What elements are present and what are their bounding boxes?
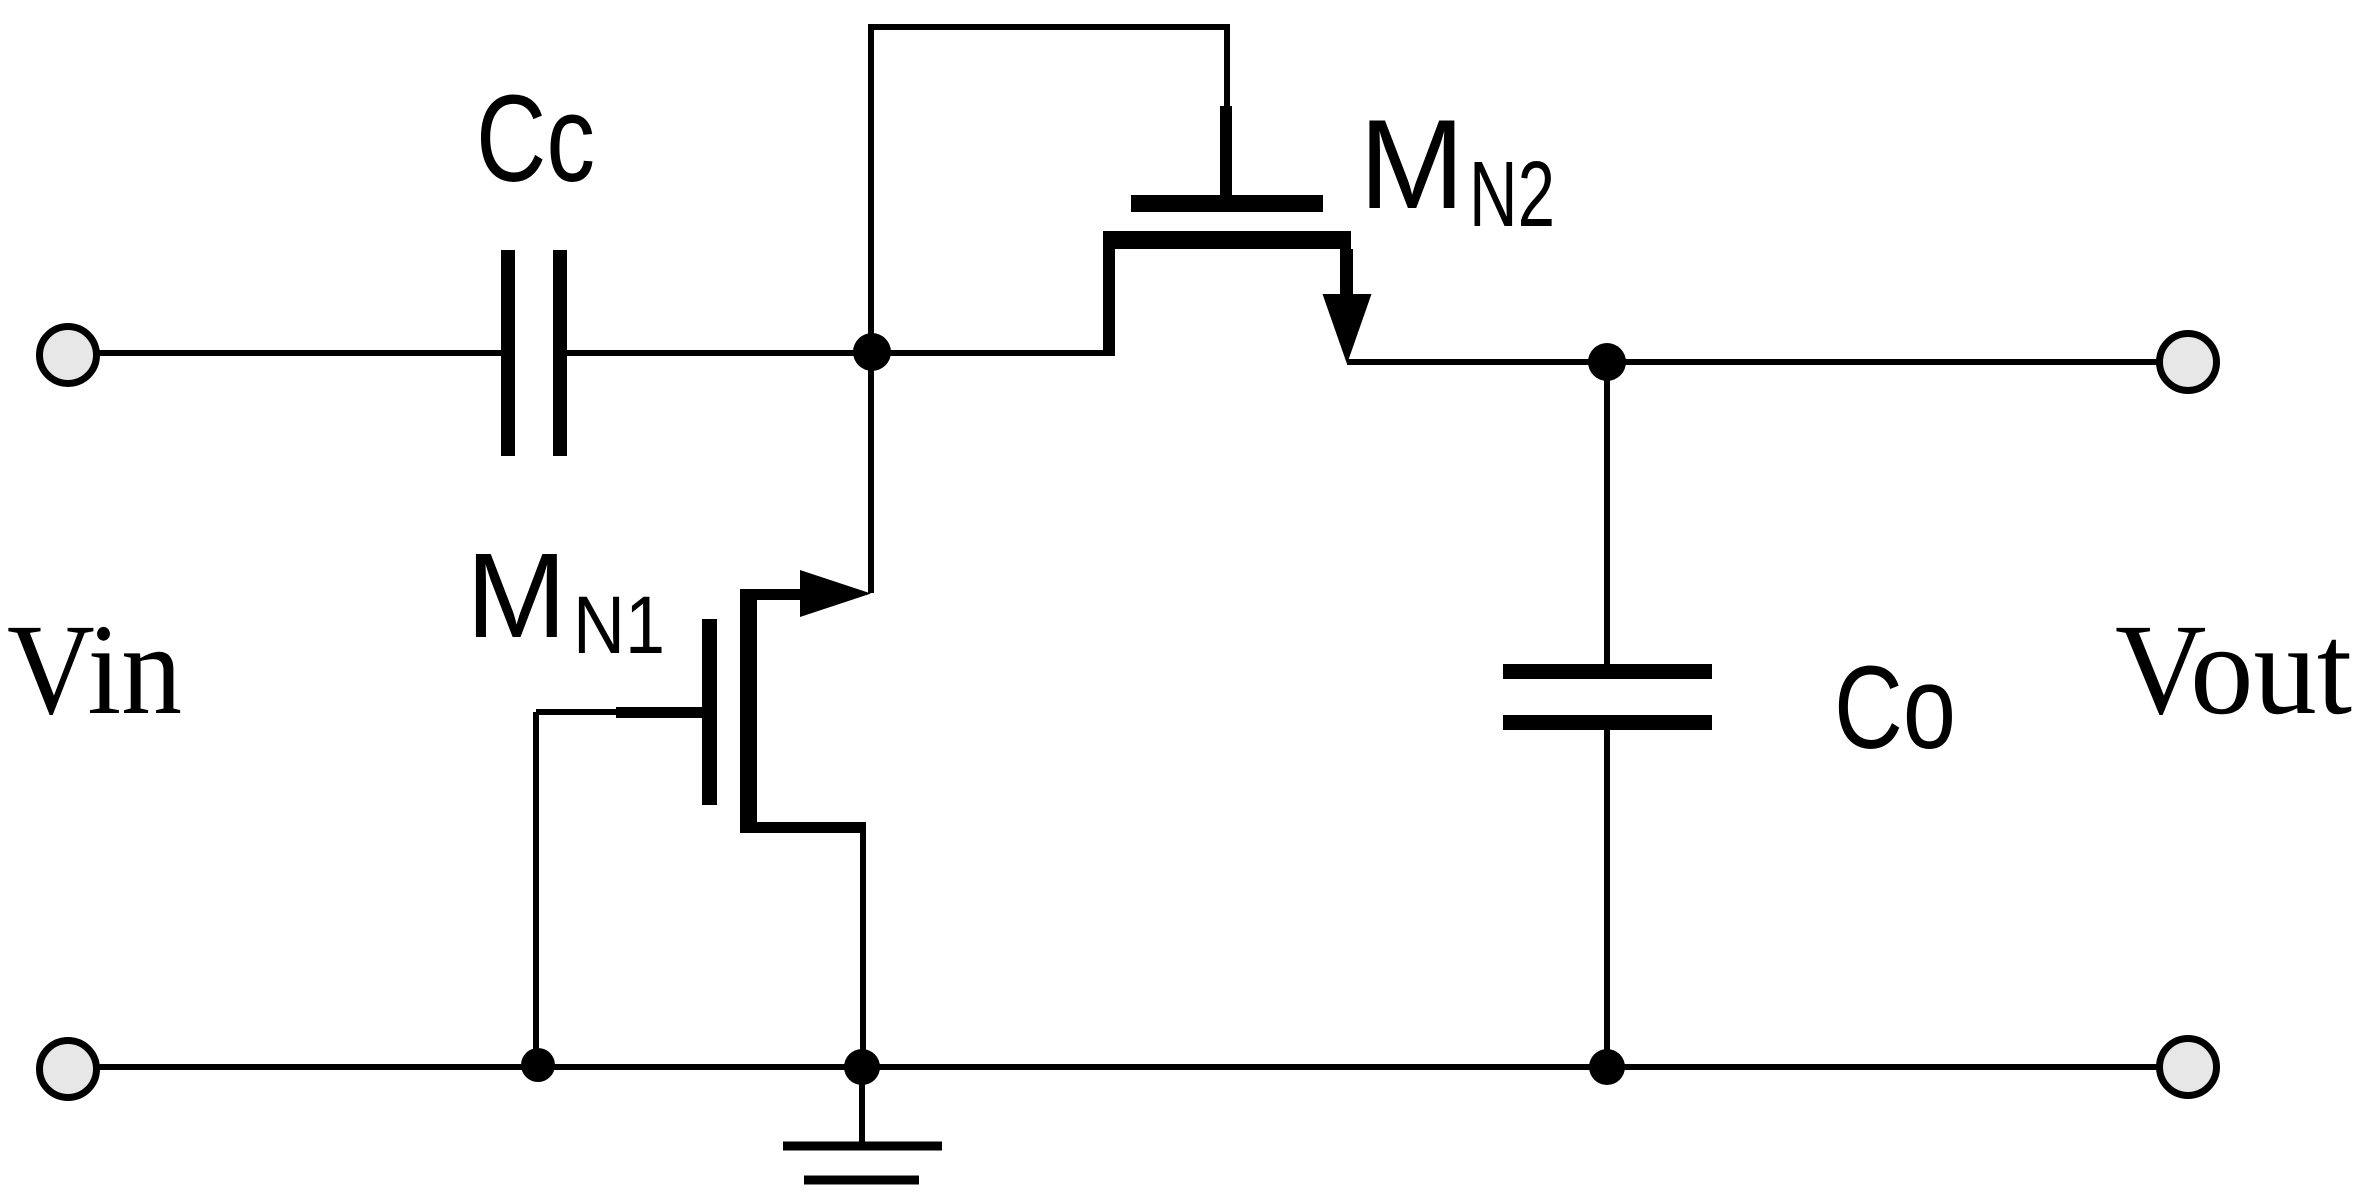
node A junction dot xyxy=(853,333,891,371)
ground bar 1 xyxy=(783,1142,942,1151)
node: source-rail junction dot xyxy=(844,1049,880,1085)
transistor Q2 MN2 source leg xyxy=(1340,249,1353,295)
svg-text:Co: Co xyxy=(1834,642,1956,774)
svg-text:N2: N2 xyxy=(1469,142,1555,246)
transistor Q1 MN1 gate lead thin xyxy=(536,709,622,715)
wire: MN1 gate wire down to bottom rail xyxy=(533,712,539,1067)
transistor Q2 MN2 gate bar xyxy=(1131,195,1323,212)
ground stem xyxy=(859,1067,865,1146)
wire: input terminal to Cc left plate xyxy=(70,350,505,356)
output node junction dot xyxy=(1588,343,1626,381)
svg-text:Cc: Cc xyxy=(476,71,595,208)
terminal: output top-right xyxy=(2160,334,2217,391)
svg-text:Vin: Vin xyxy=(7,598,182,742)
transistor Q2 MN2 channel bar xyxy=(1103,231,1351,249)
transistor Q1 MN1 source lead xyxy=(740,822,866,833)
svg-text:Vout: Vout xyxy=(2115,598,2352,742)
svg-text:M: M xyxy=(466,527,567,663)
node: gate-rail junction dot xyxy=(521,1048,555,1082)
transistor Q1 MN1 gate stub xyxy=(616,707,702,718)
svg-text:M: M xyxy=(1359,93,1465,235)
capacitor C2 Co bottom plate xyxy=(1503,715,1712,730)
transistor Q1 MN1 drain arrow xyxy=(800,570,871,617)
wire: output node down to Co top plate xyxy=(1604,362,1610,668)
wire: MN1 source down to ground rail xyxy=(860,827,866,1067)
wire: Cc right plate to node A xyxy=(564,350,880,356)
wire: vertical through node A from top wire down to MN1 drain arrow xyxy=(868,24,874,593)
terminal: input top-left xyxy=(40,327,97,384)
wire: MN2 source to output node and output terminal xyxy=(1347,359,2158,365)
node: Co-rail junction dot xyxy=(1589,1049,1625,1085)
wire: node A to MN2 drain leg xyxy=(872,350,1112,356)
wire: Co bottom plate down to bottom rail xyxy=(1604,728,1610,1067)
ground bar 2 xyxy=(804,1176,919,1185)
svg-text:N1: N1 xyxy=(573,580,665,671)
transistor Q1 MN1 drain lead xyxy=(740,589,804,600)
capacitor C2 Co top plate xyxy=(1503,664,1712,679)
transistor Q2 MN2 gate stub xyxy=(1220,106,1232,198)
transistor Q2 MN2 drain leg xyxy=(1103,249,1115,356)
transistor Q1 MN1 gate bar xyxy=(702,619,717,805)
terminal: bottom-left xyxy=(40,1041,97,1098)
capacitor C1 Cc right plate xyxy=(553,250,567,456)
capacitor C1 Cc left plate xyxy=(501,250,515,456)
wire: MN2 gate lead thin vertical xyxy=(1224,27,1230,112)
terminal: bottom-right xyxy=(2160,1039,2217,1096)
transistor Q2 MN2 source arrow xyxy=(1323,294,1372,364)
transistor Q1 MN1 channel bar xyxy=(740,589,757,831)
wire: top horizontal from node A column to MN2 gate xyxy=(868,24,1230,30)
wire: bottom rail xyxy=(70,1064,2158,1070)
